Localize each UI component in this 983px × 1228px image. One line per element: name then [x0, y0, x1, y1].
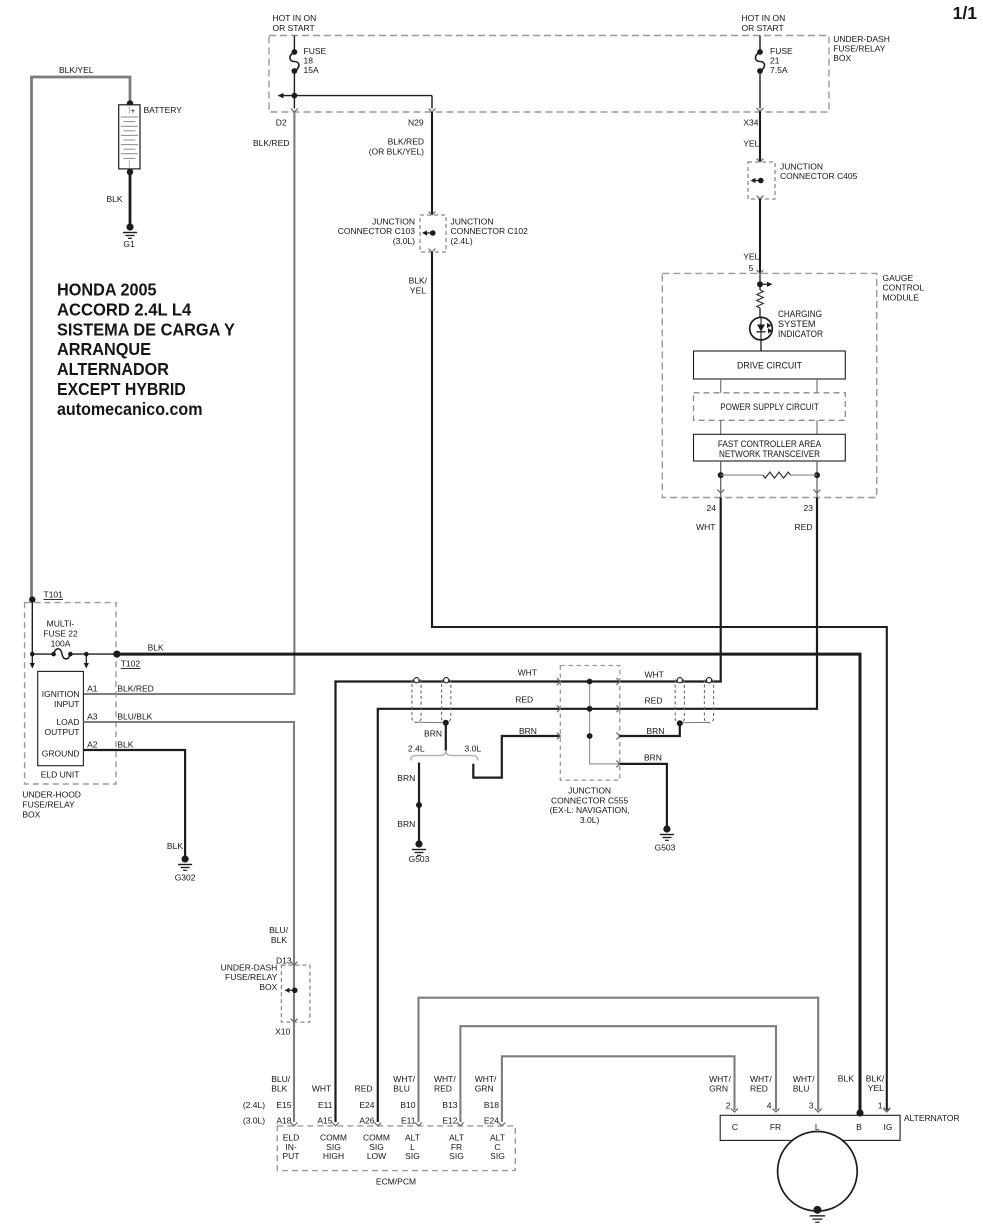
svg-text:SYSTEM: SYSTEM: [778, 319, 816, 329]
svg-text:A2: A2: [87, 740, 98, 750]
svg-text:FUSE: FUSE: [770, 46, 793, 56]
svg-text:BLK/YEL: BLK/YEL: [59, 65, 94, 75]
svg-text:WHT/: WHT/: [393, 1074, 415, 1084]
wire drive to power supply (right): [816, 379, 818, 393]
inline connector right terminals: [677, 678, 682, 683]
svg-text:5: 5: [749, 263, 754, 273]
svg-text:SIG: SIG: [405, 1151, 420, 1161]
svg-text:OUTPUT: OUTPUT: [45, 727, 80, 737]
inline connector left A: [412, 678, 421, 723]
wire YEL C405 to gauge module: [759, 199, 761, 273]
svg-text:SIG: SIG: [449, 1151, 464, 1161]
svg-text:JUNCTION: JUNCTION: [568, 786, 611, 796]
svg-text:BLU/: BLU/: [271, 1074, 291, 1084]
svg-text:RED: RED: [515, 695, 533, 705]
wire indicator to drive circuit: [760, 340, 762, 351]
svg-text:N29: N29: [408, 118, 424, 128]
node BRN tap left: [443, 720, 449, 726]
junction C405 terminal: [758, 178, 764, 184]
ground G503 left: [415, 840, 422, 847]
svg-text:BRN: BRN: [644, 753, 662, 763]
svg-text:21: 21: [770, 56, 780, 66]
arrow multifuse left branch: [31, 654, 33, 663]
svg-text:(2.4L): (2.4L): [451, 236, 473, 246]
svg-text:WHT/: WHT/: [709, 1074, 731, 1084]
svg-text:BRN: BRN: [397, 773, 415, 783]
C555 node WHT: [587, 679, 593, 685]
ground alternator case: [813, 1206, 821, 1214]
wire CAN termination left: [721, 474, 763, 476]
svg-text:INPUT: INPUT: [54, 699, 80, 709]
ground G1: [126, 223, 133, 230]
wire BLK battery ground: [129, 172, 132, 227]
svg-text:1: 1: [878, 1101, 883, 1111]
wire fuse 18 feed: [293, 36, 295, 53]
resistor CAN termination: [763, 472, 791, 478]
wire T101 to multifuse: [31, 600, 33, 655]
svg-text:JUNCTION: JUNCTION: [372, 217, 415, 227]
node alternator B: [856, 1109, 863, 1116]
svg-text:WHT: WHT: [312, 1084, 331, 1094]
svg-text:BLK/RED: BLK/RED: [117, 684, 153, 694]
gauge control module box: [662, 273, 876, 497]
svg-text:CONNECTOR C555: CONNECTOR C555: [551, 795, 629, 805]
node T102: [113, 651, 120, 658]
svg-text:DRIVE CIRCUIT: DRIVE CIRCUIT: [737, 361, 802, 372]
svg-text:automecanico.com: automecanico.com: [57, 399, 203, 419]
svg-text:G503: G503: [655, 843, 676, 853]
svg-text:IG: IG: [884, 1122, 893, 1132]
wire BRN C555 row3 to right tap: [620, 723, 680, 736]
multifuse 22 100A: [32, 653, 53, 655]
svg-text:+: +: [131, 107, 136, 116]
svg-text:EXCEPT HYBRID: EXCEPT HYBRID: [57, 379, 186, 399]
svg-text:A3: A3: [87, 712, 98, 722]
junction connector C102/C103: [420, 215, 446, 252]
ECM entry chevrons: [291, 1123, 298, 1126]
resistor indicator series: [757, 290, 763, 308]
wire fuse 21 feed: [759, 36, 761, 53]
svg-text:HOT IN ON: HOT IN ON: [742, 13, 786, 23]
wire WHT pin24 to ECM comm sig high: [336, 498, 721, 1123]
svg-text:CONNECTOR C102: CONNECTOR C102: [451, 226, 529, 236]
svg-text:YEL: YEL: [743, 252, 759, 262]
svg-text:ELD UNIT: ELD UNIT: [41, 770, 80, 780]
wire BRN 3.0L to junction connector C555: [473, 736, 560, 778]
node CAN right: [814, 472, 820, 478]
wire BLU/BLK A3 to ECM ELD input: [83, 722, 294, 1122]
connector chevron D2: [291, 109, 298, 112]
svg-text:UNDER-HOOD: UNDER-HOOD: [22, 790, 81, 800]
fuse 21 7.5A: [756, 52, 765, 71]
battery BAT1: [119, 105, 140, 169]
svg-text:BLU/BLK: BLU/BLK: [117, 712, 152, 722]
svg-text:GAUGE: GAUGE: [883, 273, 914, 283]
junction C102 terminal: [430, 230, 436, 236]
svg-text:A26: A26: [359, 1116, 374, 1126]
svg-text:B10: B10: [400, 1100, 415, 1110]
svg-text:JUNCTION: JUNCTION: [451, 217, 494, 227]
ground G302: [182, 855, 189, 862]
svg-text:BLK/: BLK/: [409, 276, 428, 286]
wire BRN 2.4L to G503: [418, 763, 420, 844]
svg-text:(3.0L): (3.0L): [393, 236, 415, 246]
wire power to CAN (right): [816, 420, 818, 434]
svg-text:BLK: BLK: [167, 841, 183, 851]
connector chevron module pin 24: [717, 490, 724, 493]
svg-text:T101: T101: [44, 590, 64, 600]
svg-text:BLU: BLU: [393, 1084, 410, 1094]
connector chevron X10 out: [291, 1019, 298, 1022]
svg-text:3: 3: [809, 1101, 814, 1111]
svg-text:2.4L: 2.4L: [408, 744, 425, 754]
inline connector right A: [675, 678, 684, 723]
svg-text:E15: E15: [276, 1100, 291, 1110]
svg-text:CHARGING: CHARGING: [778, 309, 822, 319]
svg-text:WHT: WHT: [518, 668, 537, 678]
svg-text:FUSE 22: FUSE 22: [43, 629, 78, 639]
svg-text:RED: RED: [750, 1084, 768, 1094]
connector chevron alternator IG: [883, 1108, 890, 1111]
svg-text:SIG: SIG: [490, 1151, 505, 1161]
svg-text:RED: RED: [355, 1084, 373, 1094]
wire YEL X34 to C405: [759, 112, 761, 163]
svg-text:2: 2: [726, 1101, 731, 1111]
svg-text:C: C: [732, 1122, 738, 1132]
junction D13 terminal: [292, 988, 298, 994]
svg-text:MODULE: MODULE: [883, 292, 920, 302]
wire N29 drop inside box: [431, 96, 433, 109]
wire drive to power supply (left): [720, 379, 722, 393]
svg-text:POWER SUPPLY CIRCUIT: POWER SUPPLY CIRCUIT: [720, 402, 819, 413]
ECM/PCM box: [277, 1126, 515, 1171]
svg-text:A18: A18: [276, 1116, 291, 1126]
wire WHT/RED alt FR sig: [460, 1026, 776, 1122]
arrow internal feed: [760, 283, 768, 285]
node T101: [29, 596, 35, 602]
svg-text:INDICATOR: INDICATOR: [778, 329, 823, 339]
svg-text:CONNECTOR C405: CONNECTOR C405: [780, 171, 858, 181]
drive circuit box: [694, 351, 846, 379]
svg-text:BOX: BOX: [22, 810, 40, 820]
wire resistor to indicator: [759, 308, 761, 317]
svg-text:23: 23: [804, 503, 814, 513]
C555 node RED: [587, 706, 593, 712]
svg-text:T102: T102: [121, 659, 141, 669]
under-hood fuse/relay box: [25, 603, 116, 784]
under-dash fuse/relay box (D13): [281, 965, 310, 1022]
svg-text:BOX: BOX: [833, 53, 851, 63]
svg-text:RED: RED: [645, 696, 663, 706]
svg-text:WHT/: WHT/: [434, 1074, 456, 1084]
svg-text:BOX: BOX: [259, 982, 277, 992]
svg-text:FR: FR: [770, 1122, 781, 1132]
connector chevron D13 in: [291, 962, 298, 965]
inline connector left terminals: [414, 678, 419, 683]
svg-text:BLK: BLK: [271, 1084, 287, 1094]
svg-text:A1: A1: [87, 684, 98, 694]
svg-text:BATTERY: BATTERY: [144, 105, 183, 115]
svg-text:ALTERNATOR: ALTERNATOR: [904, 1113, 960, 1123]
svg-text:CONTROL: CONTROL: [883, 283, 925, 293]
wire fuse 21 output: [759, 71, 761, 109]
svg-text:WHT: WHT: [645, 670, 664, 680]
svg-text:BLK/: BLK/: [866, 1074, 885, 1084]
svg-text:YEL: YEL: [743, 139, 759, 149]
svg-text:BRN: BRN: [397, 819, 415, 829]
wire power to CAN (left): [720, 420, 722, 434]
svg-text:FUSE/RELAY: FUSE/RELAY: [22, 800, 75, 810]
svg-text:(OR BLK/YEL): (OR BLK/YEL): [369, 147, 424, 157]
ELD unit box: [38, 671, 84, 765]
svg-text:PUT: PUT: [283, 1151, 300, 1161]
svg-text:D2: D2: [276, 118, 287, 128]
svg-text:L: L: [815, 1122, 820, 1132]
svg-text:RED: RED: [795, 522, 813, 532]
svg-text:OR START: OR START: [273, 23, 315, 33]
svg-text:BLK: BLK: [107, 194, 123, 204]
node battery negative: [127, 169, 133, 175]
svg-text:B: B: [856, 1122, 862, 1132]
svg-text:E11: E11: [401, 1116, 416, 1126]
svg-text:ARRANQUE: ARRANQUE: [57, 339, 151, 359]
svg-text:BRN: BRN: [424, 729, 442, 739]
svg-text:24: 24: [707, 503, 717, 513]
svg-text:BLK/RED: BLK/RED: [388, 137, 424, 147]
inline connector right B: [704, 678, 713, 723]
node battery positive: [127, 100, 133, 106]
svg-text:B18: B18: [484, 1100, 499, 1110]
svg-text:G302: G302: [175, 873, 196, 883]
wire fuse 18 output: [293, 71, 295, 109]
charging system indicator LED: [750, 317, 773, 340]
svg-text:BLU/: BLU/: [269, 925, 289, 935]
wire WHT/BLU alt L sig: [419, 998, 819, 1122]
svg-text:7.5A: 7.5A: [770, 65, 788, 75]
wire BRN C555 row4 to G503 right: [620, 764, 667, 828]
arrow to other circuits: [278, 93, 284, 98]
arrow multifuse right branch: [85, 654, 87, 663]
svg-text:GRN: GRN: [475, 1084, 494, 1094]
svg-text:ECM/PCM: ECM/PCM: [376, 1177, 416, 1187]
svg-text:FUSE/RELAY: FUSE/RELAY: [833, 44, 886, 54]
connector chevron module pin 23: [814, 490, 821, 493]
svg-text:G1: G1: [123, 239, 135, 249]
wire BLK/YEL battery feed: [32, 77, 131, 600]
CAN transceiver box: [694, 434, 846, 461]
svg-text:RED: RED: [434, 1084, 452, 1094]
svg-text:JUNCTION: JUNCTION: [780, 162, 823, 172]
svg-text:SISTEMA DE CARGA Y: SISTEMA DE CARGA Y: [57, 319, 235, 339]
svg-text:D13: D13: [276, 956, 292, 966]
wire BLK A2 to G302: [83, 750, 185, 858]
svg-text:BLK/RED: BLK/RED: [253, 138, 289, 148]
svg-text:(2.4L): (2.4L): [243, 1100, 265, 1110]
wire BLK/RED D2 to ELD A1: [83, 112, 294, 694]
svg-text:FUSE/RELAY: FUSE/RELAY: [225, 972, 278, 982]
wire CAN out left: [720, 461, 722, 498]
node fuse18 junction: [292, 93, 298, 99]
brace 2.4L/3.0L: [411, 751, 479, 761]
svg-text:BLU: BLU: [793, 1084, 810, 1094]
wire CAN termination right: [791, 474, 818, 476]
svg-text:1/1: 1/1: [953, 3, 978, 23]
node BRN splice: [416, 802, 422, 808]
svg-text:3.0L): 3.0L): [580, 815, 600, 825]
connector chevron N29: [429, 109, 436, 112]
svg-text:X34: X34: [743, 118, 758, 128]
svg-text:LOAD: LOAD: [56, 717, 79, 727]
node module pin5 junction: [757, 281, 763, 287]
svg-text:E12: E12: [442, 1116, 457, 1126]
svg-text:UNDER-DASH: UNDER-DASH: [833, 34, 890, 44]
fuse 18 15A: [290, 52, 299, 71]
wire BRN pill to brace: [445, 723, 447, 751]
svg-text:B13: B13: [442, 1100, 457, 1110]
svg-text:IGNITION: IGNITION: [42, 689, 80, 699]
under-dash fuse/relay box: [269, 36, 829, 113]
wire module pin5 internal: [759, 273, 761, 290]
connector chevron module pin 5: [757, 270, 764, 273]
svg-text:(3.0L): (3.0L): [243, 1116, 265, 1126]
svg-text:3.0L: 3.0L: [465, 744, 482, 754]
svg-text:BLK: BLK: [271, 935, 287, 945]
svg-text:X10: X10: [275, 1027, 290, 1037]
wire RED pin23 to ECM comm sig low: [378, 498, 817, 1123]
svg-text:WHT/: WHT/: [793, 1074, 815, 1084]
svg-text:E24: E24: [359, 1100, 374, 1110]
svg-text:FUSE: FUSE: [304, 46, 327, 56]
svg-text:WHT/: WHT/: [750, 1074, 772, 1084]
power supply circuit box: [694, 393, 846, 421]
svg-text:BLK: BLK: [117, 740, 133, 750]
ground G503 right: [663, 825, 670, 832]
C555 edge chevrons: [557, 678, 560, 685]
svg-text:ACCORD 2.4L L4: ACCORD 2.4L L4: [57, 299, 191, 319]
inline connector left B: [442, 678, 451, 723]
C555 internal bus: [590, 682, 620, 764]
connector chevron X34: [757, 108, 764, 111]
svg-text:E24: E24: [484, 1116, 499, 1126]
svg-text:GROUND: GROUND: [42, 749, 80, 759]
svg-text:G503: G503: [409, 854, 430, 864]
svg-text:(EX-L: NAVIGATION,: (EX-L: NAVIGATION,: [550, 805, 630, 815]
svg-text:100A: 100A: [51, 639, 71, 649]
svg-text:HIGH: HIGH: [323, 1151, 344, 1161]
wire N29 to junction C102: [431, 112, 433, 215]
svg-text:MULTI-: MULTI-: [47, 619, 75, 629]
svg-text:BRN: BRN: [519, 726, 537, 736]
svg-text:HONDA 2005: HONDA 2005: [57, 280, 157, 300]
svg-text:CONNECTOR C103: CONNECTOR C103: [338, 226, 416, 236]
svg-text:NETWORK TRANSCEIVER: NETWORK TRANSCEIVER: [719, 449, 820, 460]
svg-text:LOW: LOW: [367, 1151, 386, 1161]
node CAN left: [718, 472, 724, 478]
svg-text:GRN: GRN: [709, 1084, 728, 1094]
wire BLK/YEL to alternator IG: [432, 252, 887, 1110]
svg-text:A15: A15: [317, 1116, 332, 1126]
wire WHT/GRN alt C sig: [502, 1056, 735, 1122]
wire bus to N29: [283, 95, 432, 97]
svg-text:YEL: YEL: [410, 286, 426, 296]
alternator box: [720, 1115, 900, 1140]
svg-text:18: 18: [304, 56, 314, 66]
svg-text:WHT: WHT: [696, 522, 715, 532]
node BRN tap right: [677, 720, 683, 726]
junction connector C405: [748, 162, 775, 199]
svg-text:4: 4: [767, 1101, 772, 1111]
svg-text:ALTERNADOR: ALTERNADOR: [57, 359, 169, 379]
svg-text:BRN: BRN: [647, 726, 665, 736]
svg-text:15A: 15A: [304, 65, 319, 75]
alternator body circle: [778, 1132, 858, 1212]
svg-text:BLK: BLK: [838, 1074, 854, 1084]
junction connector C555 box: [560, 666, 620, 781]
svg-text:YEL: YEL: [868, 1083, 884, 1093]
svg-text:BLK: BLK: [148, 643, 164, 653]
alternator terminal chevrons: [731, 1109, 738, 1112]
wire BLK main to alternator B: [117, 654, 860, 1112]
svg-text:E11: E11: [318, 1100, 333, 1110]
svg-text:OR START: OR START: [742, 23, 784, 33]
svg-text:UNDER-DASH: UNDER-DASH: [221, 963, 278, 973]
wire CAN out right: [816, 461, 818, 498]
svg-text:HOT IN ON: HOT IN ON: [273, 13, 317, 23]
svg-text:WHT/: WHT/: [475, 1074, 497, 1084]
C555 node BRN: [587, 733, 593, 739]
